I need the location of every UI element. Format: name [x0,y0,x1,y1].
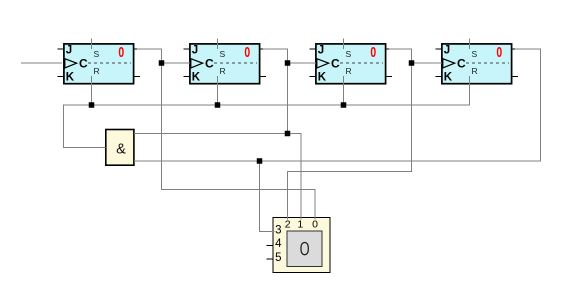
svg-text:J: J [318,45,324,57]
svg-text:R: R [346,66,352,76]
svg-text:3: 3 [275,224,281,236]
svg-text:R: R [472,66,478,76]
svg-text:R: R [94,66,100,76]
svg-text:1: 1 [297,219,303,231]
svg-text:5: 5 [275,252,281,264]
svg-text:S: S [472,49,478,59]
svg-text:C: C [205,57,214,71]
svg-text:S: S [220,49,226,59]
svg-text:0: 0 [118,44,124,61]
svg-text:K: K [318,72,327,84]
svg-text:2: 2 [285,219,291,231]
svg-text:C: C [79,57,88,71]
svg-text:C: C [457,57,466,71]
svg-text:S: S [94,49,100,59]
svg-text:4: 4 [275,238,282,250]
svg-text:S: S [346,49,352,59]
svg-text:0: 0 [370,44,376,61]
svg-text:R: R [220,66,226,76]
svg-text:0: 0 [496,44,502,61]
svg-text:&: & [116,142,126,158]
svg-text:C: C [331,57,340,71]
svg-text:J: J [192,45,198,57]
svg-text:J: J [66,45,72,57]
svg-text:K: K [66,72,75,84]
svg-text:J: J [444,45,450,57]
svg-text:K: K [444,72,453,84]
svg-text:0: 0 [244,44,250,61]
svg-text:K: K [192,72,201,84]
svg-text:0: 0 [312,219,318,231]
